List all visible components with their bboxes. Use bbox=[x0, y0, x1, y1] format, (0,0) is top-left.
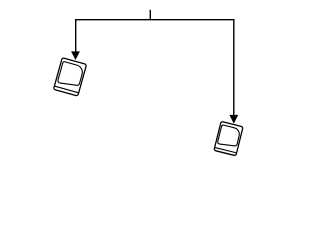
wire: right vertical drop bbox=[233, 19, 235, 115]
arrowhead left bbox=[71, 51, 80, 60]
arrowhead right bbox=[229, 115, 238, 124]
wire: left vertical drop bbox=[75, 19, 77, 52]
wire: center stub tick bbox=[149, 10, 151, 20]
node icon left (device) bbox=[53, 58, 86, 96]
wire: top horizontal segment bbox=[76, 19, 234, 21]
node icon right (device) bbox=[214, 121, 243, 155]
